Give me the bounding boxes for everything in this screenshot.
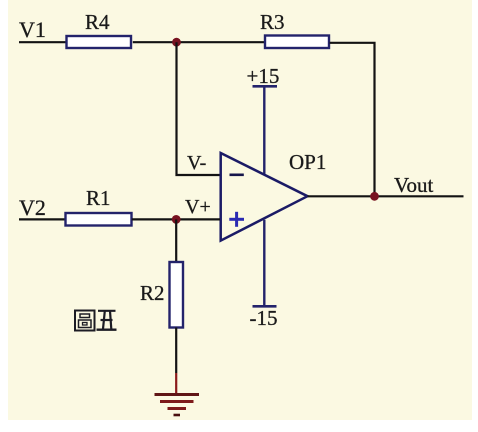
op-amp OP1 bbox=[221, 150, 327, 241]
resistor R4 bbox=[67, 10, 132, 48]
junction node A bbox=[172, 38, 181, 47]
resistor R1 bbox=[66, 186, 132, 226]
svg-text:V+: V+ bbox=[185, 196, 211, 218]
svg-text:R3: R3 bbox=[260, 10, 285, 34]
resistor R2 bbox=[140, 262, 183, 328]
wire node B down to R2 bbox=[175, 219, 177, 262]
svg-text:V1: V1 bbox=[19, 17, 46, 42]
wire output bbox=[308, 195, 464, 197]
svg-text:+15: +15 bbox=[247, 64, 280, 88]
svg-text:R4: R4 bbox=[85, 10, 110, 34]
wire R1 to V+ input bbox=[132, 218, 220, 220]
resistor R3 bbox=[260, 10, 329, 48]
svg-text:V2: V2 bbox=[19, 195, 46, 220]
svg-text:Vout: Vout bbox=[394, 173, 433, 197]
svg-text:OP1: OP1 bbox=[289, 150, 326, 174]
power +15 bbox=[247, 64, 280, 174]
power -15 bbox=[250, 220, 278, 330]
svg-text:V-: V- bbox=[187, 152, 206, 174]
wire V2 to R1 bbox=[19, 218, 65, 220]
ground bbox=[155, 395, 200, 416]
wire V1 to R4 bbox=[19, 41, 66, 43]
junction output node bbox=[370, 192, 379, 201]
svg-text:R1: R1 bbox=[86, 186, 111, 210]
svg-text:-15: -15 bbox=[250, 306, 278, 330]
svg-text:R2: R2 bbox=[140, 281, 165, 305]
junction node B bbox=[172, 215, 181, 224]
wire R3 to output node bbox=[330, 43, 375, 197]
wire node A down to V- input bbox=[177, 42, 221, 175]
wire R2 to ground bbox=[175, 328, 177, 395]
wire R4 to R3 bbox=[133, 41, 265, 43]
caption 圖五 (figure five) bbox=[75, 311, 117, 331]
